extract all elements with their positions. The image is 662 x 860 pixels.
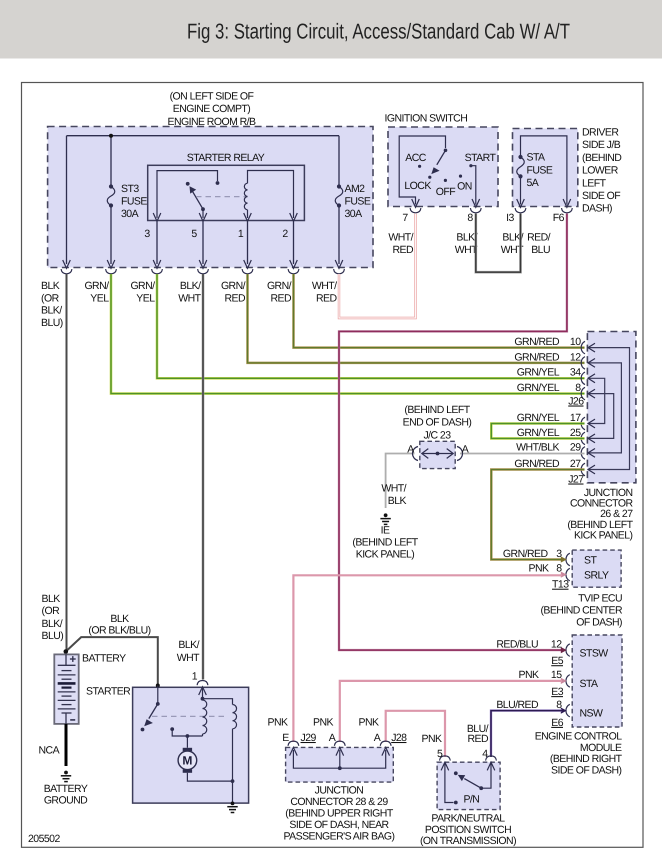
svg-text:A: A bbox=[329, 732, 336, 744]
junction 26-27 internal loop pin8 to pin25 bbox=[589, 394, 614, 439]
ground IE bbox=[380, 513, 390, 524]
svg-text:15: 15 bbox=[551, 669, 562, 681]
node ON bbox=[459, 175, 462, 178]
svg-text:25: 25 bbox=[570, 427, 581, 439]
svg-text:4: 4 bbox=[482, 748, 488, 760]
junction 28-29 internal bus bbox=[293, 750, 385, 768]
svg-text:27: 27 bbox=[570, 458, 581, 470]
svg-text:(OR: (OR bbox=[42, 605, 61, 617]
wire label BLU/RED vertical bbox=[467, 723, 489, 745]
TVIP caption bbox=[540, 593, 623, 629]
junction 26-27 pin arcs bbox=[581, 341, 585, 476]
svg-text:WHT/: WHT/ bbox=[381, 483, 406, 495]
wire GRN/YEL U-loop pin17 to pin25 bbox=[491, 424, 584, 439]
wire label BLK (OR BLK/BLU) left column bbox=[42, 593, 64, 642]
svg-text:10: 10 bbox=[570, 336, 581, 348]
svg-text:RED: RED bbox=[392, 244, 413, 256]
svg-text:JUNCTION: JUNCTION bbox=[315, 785, 364, 797]
svg-text:GRN/: GRN/ bbox=[84, 280, 109, 292]
svg-text:RED/: RED/ bbox=[527, 232, 551, 244]
ground IE caption bbox=[352, 524, 418, 560]
svg-text:(BEHIND UPPER RIGHT: (BEHIND UPPER RIGHT bbox=[285, 808, 394, 820]
svg-text:BLK/: BLK/ bbox=[42, 618, 63, 630]
wire GRN/RED to J26 pin 10 bbox=[294, 274, 585, 348]
svg-text:F6: F6 bbox=[553, 212, 565, 224]
svg-text:M: M bbox=[182, 754, 192, 768]
svg-text:GRN/YEL: GRN/YEL bbox=[517, 367, 560, 379]
relay pin arrows at relay box bottom bbox=[153, 213, 297, 221]
svg-text:BLK: BLK bbox=[388, 495, 407, 507]
svg-text:WHT/: WHT/ bbox=[312, 280, 337, 292]
svg-text:OF DASH): OF DASH) bbox=[576, 616, 622, 628]
motor M stem and brushes bbox=[187, 736, 232, 781]
svg-text:(ON TRANSMISSION): (ON TRANSMISSION) bbox=[420, 835, 516, 847]
engine room R/B label bbox=[167, 91, 256, 128]
driver side J/B dashed box bbox=[513, 129, 578, 207]
header title bar bbox=[0, 0, 662, 59]
J/C 23 internal wire with arrows bbox=[422, 453, 453, 455]
node starter contact bbox=[170, 727, 174, 731]
svg-text:3: 3 bbox=[556, 548, 562, 560]
svg-text:J/C 23: J/C 23 bbox=[423, 429, 451, 441]
svg-text:Fig 3: Starting Circuit, Acces: Fig 3: Starting Circuit, Access/Standard… bbox=[187, 20, 570, 44]
relay pin number labels 3 5 1 2 bbox=[144, 228, 288, 240]
svg-text:STA: STA bbox=[580, 678, 599, 690]
svg-text:PNK: PNK bbox=[359, 717, 379, 729]
svg-text:A: A bbox=[462, 444, 469, 456]
driver J/B pin I3 bbox=[515, 199, 526, 213]
wire to starter ground bbox=[232, 781, 234, 803]
driver side J/B label bbox=[582, 127, 622, 215]
wire BLK/WHT ignition pin 8 to I3 bbox=[476, 214, 521, 273]
P/N internal pin5 path bbox=[445, 763, 454, 803]
svg-text:ENGINE COMPT): ENGINE COMPT) bbox=[173, 103, 250, 115]
svg-text:BLK/: BLK/ bbox=[41, 305, 62, 317]
junction 26-27 internal loop pin10 to pin27 bbox=[589, 348, 630, 470]
svg-text:IE: IE bbox=[381, 524, 390, 536]
node coil1 top bbox=[201, 697, 205, 701]
wire GRN/RED to J26 pin 12 bbox=[248, 274, 585, 363]
svg-text:J26: J26 bbox=[568, 396, 584, 408]
starter switch stem bbox=[157, 686, 159, 704]
svg-text:BATTERY: BATTERY bbox=[82, 653, 126, 665]
relay mechanical dashed link bbox=[196, 196, 248, 198]
svg-text:7: 7 bbox=[402, 212, 408, 224]
node starter switch pivot bbox=[156, 702, 160, 706]
ignition switch lever bbox=[437, 150, 446, 165]
svg-text:I3: I3 bbox=[506, 212, 514, 224]
ground battery bbox=[61, 771, 71, 782]
svg-text:BLK: BLK bbox=[110, 613, 129, 625]
node starter ground junction bbox=[231, 779, 235, 783]
junction 26-27 caption bbox=[567, 487, 633, 542]
svg-text:GRN/YEL: GRN/YEL bbox=[517, 382, 560, 394]
svg-text:KICK PANEL): KICK PANEL) bbox=[574, 530, 633, 542]
node J26 label bbox=[568, 396, 584, 486]
node relay lever pivot bbox=[201, 207, 205, 211]
driver J/B pin F6 bbox=[562, 199, 573, 213]
junction 28-29 pin labels bbox=[282, 732, 407, 744]
ignition position labels bbox=[404, 152, 496, 198]
wires relay pins down to R/B edge bbox=[157, 221, 294, 264]
svg-text:12: 12 bbox=[570, 351, 581, 363]
node relay contact left bbox=[186, 182, 190, 186]
svg-text:E3: E3 bbox=[551, 686, 563, 698]
node START bbox=[469, 164, 472, 167]
svg-text:30A: 30A bbox=[345, 208, 363, 220]
ground starter bbox=[227, 802, 237, 813]
P/N pin 5 arrow and arc bbox=[440, 756, 451, 771]
driver J/B internal path I3 to F6 bbox=[521, 136, 567, 205]
svg-text:LEFT: LEFT bbox=[582, 177, 607, 189]
starter pin 1 arc above box bbox=[197, 681, 208, 686]
svg-text:AM2: AM2 bbox=[345, 183, 366, 195]
J/C 23 caption bbox=[403, 404, 472, 441]
svg-text:MODULE: MODULE bbox=[580, 742, 622, 754]
svg-text:LOCK: LOCK bbox=[404, 180, 431, 192]
svg-text:FUSE: FUSE bbox=[121, 196, 147, 208]
svg-text:(OR: (OR bbox=[41, 292, 60, 304]
P/N internal pin4 path bbox=[483, 763, 491, 788]
svg-text:3: 3 bbox=[144, 228, 150, 240]
battery ground caption bbox=[44, 783, 88, 807]
node ignition pivot bbox=[444, 149, 448, 153]
svg-text:A: A bbox=[407, 444, 414, 456]
node battery positive junction bbox=[64, 649, 69, 654]
wire label BLK/WHT at starter bbox=[177, 639, 200, 664]
junction 28-29 pin arcs bbox=[288, 741, 299, 746]
wire BLU/RED P/N pin4 to ECM NSW bbox=[491, 711, 562, 757]
ECM pin labels bbox=[580, 648, 609, 720]
battery internals bbox=[58, 654, 76, 679]
battery feed corner: wire BLK to battery bbox=[66, 645, 68, 650]
wire color labels below engine room box bbox=[41, 280, 63, 329]
wire BLK battery feed (vertical) bbox=[66, 274, 68, 650]
svg-text:GRN/RED: GRN/RED bbox=[503, 548, 549, 560]
svg-text:TVIP ECU: TVIP ECU bbox=[578, 593, 622, 605]
wire ST3 branch bbox=[110, 136, 112, 264]
ignition pin 7 bbox=[410, 199, 421, 213]
svg-text:OFF: OFF bbox=[436, 186, 455, 198]
starter switch output contact stub bbox=[172, 729, 202, 736]
svg-text:(BEHIND LEFT: (BEHIND LEFT bbox=[404, 404, 470, 416]
starter pin 1 arrow inside box bbox=[199, 687, 207, 695]
svg-text:RED: RED bbox=[270, 292, 291, 304]
svg-text:GRN/: GRN/ bbox=[267, 280, 292, 292]
wire WHT/BLK J/C23 to pin 29 bbox=[460, 453, 585, 455]
ECM dashed box bbox=[572, 635, 622, 727]
fuse ST3 30A bbox=[107, 187, 115, 206]
svg-text:PARK/NEUTRAL: PARK/NEUTRAL bbox=[431, 812, 505, 824]
starter switch lever bbox=[149, 704, 158, 719]
node OFF bbox=[444, 179, 447, 182]
svg-text:BLK: BLK bbox=[42, 593, 61, 605]
svg-text:ENGINE CONTROL: ENGINE CONTROL bbox=[535, 731, 623, 743]
svg-text:YEL: YEL bbox=[90, 292, 109, 304]
svg-text:5: 5 bbox=[191, 228, 197, 240]
TVIP pin labels bbox=[584, 554, 609, 581]
wire WHT/RED AM2 to ignition pin 7 bbox=[339, 214, 416, 319]
svg-text:PNK: PNK bbox=[268, 717, 288, 729]
svg-text:BATTERY: BATTERY bbox=[44, 783, 88, 795]
svg-text:START: START bbox=[465, 152, 497, 164]
svg-text:FUSE: FUSE bbox=[345, 196, 371, 208]
svg-text:BLU): BLU) bbox=[41, 317, 63, 329]
svg-text:205502: 205502 bbox=[28, 833, 60, 845]
svg-text:SIDE OF DASH): SIDE OF DASH) bbox=[551, 764, 621, 776]
wire NCA battery to ground bbox=[65, 724, 68, 766]
svg-text:GRN/RED: GRN/RED bbox=[514, 351, 560, 363]
svg-text:RED: RED bbox=[316, 292, 337, 304]
node motor junction bbox=[186, 734, 190, 738]
svg-text:PASSENGER'S AIR BAG): PASSENGER'S AIR BAG) bbox=[283, 831, 394, 843]
svg-text:STARTER: STARTER bbox=[86, 685, 131, 697]
wire labels PNK bbox=[268, 717, 442, 745]
relay contact feed path pin 3 bbox=[157, 171, 218, 218]
svg-text:(BEHIND LEFT: (BEHIND LEFT bbox=[352, 536, 418, 548]
node P/N lever pivot bbox=[479, 786, 483, 790]
wire left vertical to BLK exit bbox=[66, 136, 68, 264]
fuse AM2 30A bbox=[335, 187, 343, 206]
wire PNK junction A1 to ECM STA bbox=[340, 681, 562, 742]
P/N switch dashed box bbox=[437, 762, 500, 809]
svg-text:IGNITION SWITCH: IGNITION SWITCH bbox=[385, 113, 468, 125]
svg-text:STA: STA bbox=[527, 152, 546, 164]
svg-text:YEL: YEL bbox=[136, 292, 155, 304]
node P/N contact bbox=[454, 771, 458, 775]
svg-text:BLK/: BLK/ bbox=[178, 639, 199, 651]
svg-text:ST3: ST3 bbox=[121, 183, 139, 195]
svg-text:NCA: NCA bbox=[39, 745, 60, 757]
svg-text:RED/BLU: RED/BLU bbox=[496, 638, 538, 650]
svg-text:(OR BLK/BLU): (OR BLK/BLU) bbox=[88, 625, 150, 637]
TVIP pin arrowheads bbox=[561, 556, 567, 562]
svg-text:J29: J29 bbox=[301, 732, 317, 744]
svg-text:BLK/: BLK/ bbox=[456, 232, 477, 244]
wire PNK junction E to TVIP SRLY bbox=[293, 575, 562, 742]
svg-text:SRLY: SRLY bbox=[584, 570, 609, 582]
svg-text:29: 29 bbox=[570, 441, 581, 453]
wire RED/BLU F6 to ECM STSW bbox=[339, 214, 567, 651]
svg-text:GRN/RED: GRN/RED bbox=[514, 458, 560, 470]
junction 26-27 wire name labels bbox=[514, 336, 581, 470]
svg-text:POSITION SWITCH: POSITION SWITCH bbox=[425, 824, 511, 836]
junction connector 26-27 dashed box bbox=[587, 332, 636, 483]
svg-text:PNK: PNK bbox=[529, 563, 549, 575]
motor M circle bbox=[178, 751, 197, 770]
junction 26-27 internal loop pin12 to pin29 bbox=[589, 363, 621, 453]
svg-text:FUSE: FUSE bbox=[527, 164, 553, 176]
node starter feed entry bbox=[156, 684, 160, 688]
engine room R/B dashed box bbox=[48, 127, 373, 268]
svg-text:GRN/YEL: GRN/YEL bbox=[517, 427, 560, 439]
node LOCK bbox=[428, 176, 431, 179]
svg-text:5: 5 bbox=[437, 748, 443, 760]
svg-text:DASH): DASH) bbox=[582, 203, 612, 215]
fuse STA 5A bbox=[517, 157, 525, 176]
svg-text:A: A bbox=[374, 732, 381, 744]
svg-text:SIDE OF DASH, NEAR: SIDE OF DASH, NEAR bbox=[289, 819, 389, 831]
svg-text:KICK PANEL): KICK PANEL) bbox=[356, 548, 415, 560]
svg-text:BLK/: BLK/ bbox=[180, 280, 201, 292]
wire relay pin 5 stub bbox=[202, 209, 204, 218]
svg-text:CONNECTOR 28 & 29: CONNECTOR 28 & 29 bbox=[290, 796, 388, 808]
node starter switch open contact bbox=[141, 728, 145, 732]
svg-text:8: 8 bbox=[556, 563, 562, 575]
svg-text:WHT: WHT bbox=[178, 292, 201, 304]
svg-text:STSW: STSW bbox=[580, 648, 609, 660]
battery minus sign bbox=[70, 719, 75, 721]
ECM wire labels bbox=[496, 638, 563, 729]
node relay fixed contact right bbox=[216, 181, 220, 185]
ignition switch internal feed path bbox=[399, 136, 445, 205]
J/C 23 dashed box bbox=[420, 441, 455, 468]
svg-text:E6: E6 bbox=[551, 717, 563, 729]
svg-text:DRIVER: DRIVER bbox=[582, 127, 619, 139]
junction 28-29 caption bbox=[283, 785, 394, 843]
relay switch lever bbox=[193, 192, 203, 210]
wire GRN/RED pin27 to TVIP pin3 bbox=[491, 470, 584, 560]
svg-text:34: 34 bbox=[570, 367, 581, 379]
svg-text:BLK: BLK bbox=[41, 280, 60, 292]
svg-text:WHT: WHT bbox=[177, 652, 200, 664]
wire GRN/YEL to J26 pin 34 bbox=[157, 274, 585, 378]
svg-text:J28: J28 bbox=[391, 732, 407, 744]
svg-text:17: 17 bbox=[570, 412, 581, 424]
svg-text:GRN/YEL: GRN/YEL bbox=[517, 412, 560, 424]
svg-text:RED: RED bbox=[467, 733, 488, 745]
svg-text:J27: J27 bbox=[568, 474, 584, 486]
junction 28-29 pin arrows bbox=[290, 747, 390, 755]
svg-text:PNK: PNK bbox=[422, 733, 442, 745]
svg-text:30A: 30A bbox=[121, 208, 139, 220]
starter mechanical dashed link bbox=[152, 715, 228, 717]
svg-text:GROUND: GROUND bbox=[44, 795, 88, 807]
ignition pin 8 bbox=[470, 199, 481, 213]
TVIP ECU dashed box bbox=[572, 550, 621, 587]
P/N pin labels bbox=[437, 748, 488, 760]
svg-text:GRN/: GRN/ bbox=[130, 280, 155, 292]
J/C 23 pin arcs and A labels bbox=[412, 447, 418, 461]
junction 26-27 internal loop pin34 to pin17 bbox=[589, 378, 605, 423]
battery plus sign bbox=[70, 656, 76, 662]
node J/C 23 center bbox=[436, 452, 440, 456]
wire BLK (OR BLK/BLU) battery to starter bbox=[66, 637, 158, 684]
svg-text:2: 2 bbox=[282, 228, 288, 240]
engine room exit pins (arrows + arcs) bbox=[61, 260, 72, 274]
node bus/ST3 junction bbox=[109, 134, 113, 138]
svg-text:GRN/RED: GRN/RED bbox=[514, 336, 560, 348]
svg-text:5A: 5A bbox=[527, 177, 539, 189]
svg-text:WHT/BLK: WHT/BLK bbox=[516, 441, 559, 453]
wire labels WHT/RED BLK/WHT bbox=[388, 232, 550, 257]
svg-text:8: 8 bbox=[467, 212, 473, 224]
wire GRN/YEL to J26 pin 8 bbox=[111, 274, 585, 394]
svg-text:RED: RED bbox=[224, 292, 245, 304]
svg-text:E: E bbox=[282, 732, 289, 744]
wire AM2 branch bbox=[338, 136, 340, 264]
relay coil winding bbox=[244, 171, 293, 219]
svg-text:STARTER RELAY: STARTER RELAY bbox=[187, 152, 265, 164]
svg-text:P/N: P/N bbox=[463, 794, 479, 806]
svg-text:WHT/: WHT/ bbox=[388, 232, 413, 244]
svg-text:LOWER: LOWER bbox=[582, 165, 619, 177]
junction connector 28-29 dashed box bbox=[286, 747, 394, 782]
wire WHT/BLK J/C23 to IE ground bbox=[386, 454, 415, 509]
svg-text:END OF DASH): END OF DASH) bbox=[403, 417, 472, 429]
wire PNK junction A2 to P/N pin 5 bbox=[386, 711, 445, 757]
ECM pin arcs bbox=[566, 644, 570, 657]
starter motor box bbox=[133, 687, 249, 803]
ignition switch dashed box bbox=[388, 127, 498, 207]
node junction 28-29 center bbox=[338, 766, 342, 770]
svg-text:ACC: ACC bbox=[405, 152, 426, 164]
svg-text:BLU/RED: BLU/RED bbox=[496, 699, 539, 711]
TVIP wire labels bbox=[503, 548, 569, 591]
svg-text:BLU: BLU bbox=[531, 244, 550, 256]
P/N caption bbox=[420, 812, 516, 847]
svg-text:BLU): BLU) bbox=[42, 630, 64, 642]
svg-text:(ON LEFT SIDE OF: (ON LEFT SIDE OF bbox=[170, 91, 254, 103]
svg-text:SIDE J/B: SIDE J/B bbox=[582, 139, 621, 151]
wire BLK/WHT relay to starter pin 1 bbox=[202, 274, 205, 680]
svg-text:SIDE OF: SIDE OF bbox=[582, 190, 620, 202]
svg-text:(BEHIND CENTER: (BEHIND CENTER bbox=[540, 605, 623, 617]
svg-text:1: 1 bbox=[238, 228, 244, 240]
bus wire top bbox=[67, 136, 340, 264]
svg-text:8: 8 bbox=[556, 699, 562, 711]
starter solenoid coil 1 bbox=[203, 687, 207, 736]
node P/N contact bottom bbox=[454, 801, 458, 805]
ECM pin arrowheads bbox=[561, 647, 567, 653]
wire START to pin 8 bbox=[471, 166, 476, 205]
starter solenoid coil 2 bbox=[203, 699, 237, 781]
battery box bbox=[54, 654, 78, 724]
P/N switch lever bbox=[464, 779, 481, 789]
wire label WHT/BLK bbox=[381, 483, 406, 508]
P/N pin 4 arrow and arc bbox=[486, 756, 497, 771]
wire label BLK (OR BLK/BLU) bbox=[88, 613, 150, 637]
ECM caption bbox=[535, 731, 623, 777]
svg-text:8: 8 bbox=[575, 382, 581, 394]
svg-text:NSW: NSW bbox=[580, 708, 603, 720]
svg-text:12: 12 bbox=[551, 638, 562, 650]
TVIP pin arcs bbox=[566, 553, 570, 566]
svg-text:PNK: PNK bbox=[313, 717, 333, 729]
svg-text:T13: T13 bbox=[552, 579, 569, 591]
relay K1 box bbox=[148, 165, 305, 220]
junction 26-27 pin arrows bbox=[588, 343, 595, 474]
svg-text:GRN/: GRN/ bbox=[221, 280, 246, 292]
svg-text:E5: E5 bbox=[551, 655, 563, 667]
node ACC bbox=[418, 165, 421, 168]
svg-text:1: 1 bbox=[192, 671, 198, 683]
svg-text:ON: ON bbox=[457, 181, 472, 193]
svg-text:(BEHIND: (BEHIND bbox=[582, 152, 622, 164]
svg-text:PNK: PNK bbox=[519, 669, 539, 681]
svg-text:ST: ST bbox=[584, 554, 597, 566]
